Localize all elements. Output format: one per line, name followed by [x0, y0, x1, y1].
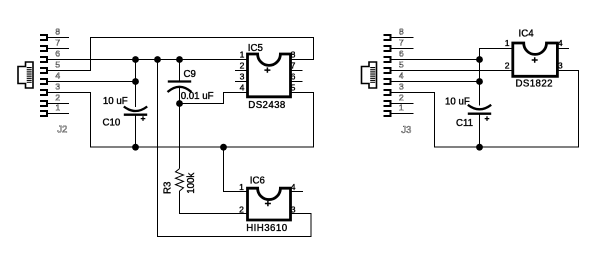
- svg-text:3: 3: [399, 81, 404, 91]
- svg-text:HIH3610: HIH3610: [246, 223, 288, 234]
- svg-text:6: 6: [291, 71, 296, 81]
- svg-text:C10: C10: [103, 117, 121, 128]
- svg-text:4: 4: [399, 70, 404, 80]
- svg-text:C11: C11: [456, 118, 473, 129]
- svg-text:1: 1: [239, 182, 244, 192]
- svg-text:IC6: IC6: [250, 176, 265, 187]
- svg-text:2: 2: [55, 92, 60, 102]
- svg-text:8: 8: [291, 49, 296, 59]
- svg-text:8: 8: [399, 26, 404, 36]
- svg-text:7: 7: [291, 60, 296, 70]
- svg-text:R3: R3: [163, 182, 174, 194]
- svg-text:2: 2: [399, 92, 404, 102]
- svg-text:C9: C9: [184, 69, 196, 80]
- svg-text:7: 7: [55, 37, 60, 47]
- svg-text:2: 2: [505, 60, 510, 70]
- svg-text:4: 4: [55, 70, 60, 80]
- svg-text:8: 8: [55, 26, 60, 36]
- svg-text:10 uF: 10 uF: [445, 97, 470, 108]
- svg-text:6: 6: [399, 48, 404, 58]
- svg-text:0.01 uF: 0.01 uF: [181, 91, 214, 102]
- svg-text:10 uF: 10 uF: [103, 96, 128, 107]
- svg-text:2: 2: [240, 60, 245, 70]
- svg-text:IC5: IC5: [248, 43, 263, 54]
- svg-text:4: 4: [291, 182, 296, 192]
- svg-text:J2: J2: [57, 125, 67, 136]
- svg-text:100k: 100k: [186, 173, 197, 194]
- svg-text:5: 5: [55, 59, 60, 69]
- svg-text:7: 7: [399, 37, 404, 47]
- svg-text:3: 3: [291, 204, 296, 214]
- svg-text:4: 4: [558, 38, 563, 48]
- svg-text:3: 3: [558, 60, 563, 70]
- svg-text:J3: J3: [401, 125, 411, 136]
- svg-text:5: 5: [291, 82, 296, 92]
- svg-text:4: 4: [240, 82, 245, 92]
- svg-text:DS2438: DS2438: [248, 100, 285, 111]
- svg-text:5: 5: [399, 59, 404, 69]
- svg-text:2: 2: [239, 204, 244, 214]
- svg-text:6: 6: [55, 48, 60, 58]
- svg-text:DS1822: DS1822: [516, 79, 553, 90]
- svg-text:3: 3: [240, 71, 245, 81]
- svg-text:1: 1: [505, 38, 510, 48]
- svg-text:1: 1: [240, 49, 245, 59]
- svg-text:3: 3: [55, 81, 60, 91]
- svg-text:IC4: IC4: [519, 29, 535, 40]
